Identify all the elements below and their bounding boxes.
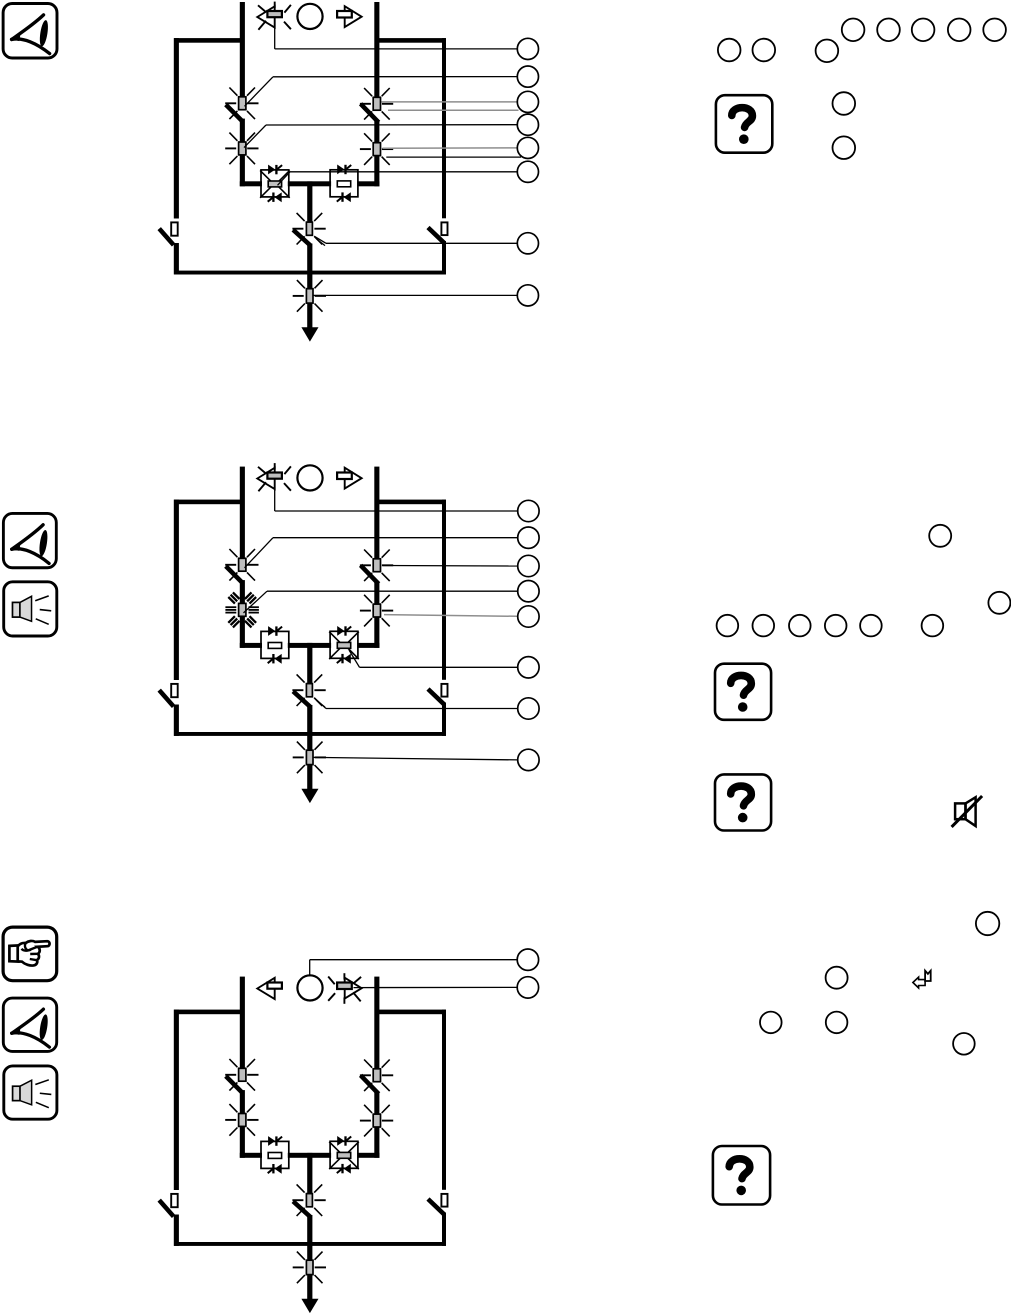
callout 8 diagram1 [517,285,538,306]
wire diagram3 output below breaker [307,1215,312,1261]
wire diagram2 bypass left vertical [174,500,179,680]
icon buzzer diagram3 [4,1066,57,1119]
LED Q4-right rays diagram1 [360,133,393,165]
LED Q1 left diagram2 [239,558,246,571]
retransfer arrow icon [913,977,925,988]
callout 5 diagram2 [518,606,539,627]
wire diagram1 left bus segment below Q1 [240,119,245,187]
wire diagram1 left input bus [240,2,245,97]
wire diagram3 bypass left vertical [174,1010,179,1190]
LED Q1-left rays diagram1 [225,88,258,120]
wire diagram2 bus into right SCR [357,643,379,648]
wire diagram3 bus into right SCR [357,1153,379,1158]
wire diagram2 bus into left SCR [240,643,262,648]
legend circle 2h [922,615,944,637]
bypass breaker left blade diagram2 [159,690,173,706]
bypass breaker right LED diagram3 [441,1194,447,1207]
output breaker LED rays diagram3 [292,1184,325,1216]
breaker Q2 right blade diagram2 [361,565,379,584]
legend circle 3e [953,1033,975,1055]
indicator arrow right-transfer diagram1 [345,6,362,27]
LED Q2-right rays diagram1 [360,88,393,120]
bypass breaker right LED diagram1 [441,222,447,235]
LED Q1 left diagram1 [239,97,246,110]
wire diagram3 bottom bus [174,1242,446,1246]
LED Q3-left fast rays diagram2 [225,592,259,627]
legend circle 2d [753,615,775,637]
output LED diagram3 [306,1260,313,1274]
wire diagram2 bypass top-left [174,500,242,505]
output breaker LED diagram1 [306,222,312,235]
output breaker LED diagram3 [306,1194,312,1207]
legend circle 1j [833,136,856,159]
indicator arrow right-transfer diagram2 [345,468,362,489]
output breaker blade diagram1 [293,230,311,246]
LED Q4-right rays diagram2 [360,595,393,627]
legend circle 1h [983,19,1006,42]
callout 7 diagram1 [517,233,538,254]
lamp diagram1 [297,4,322,29]
wire diagram2 right bus segment below Q2 [374,582,379,648]
wire diagram2 output riser [307,643,312,684]
lamp diagram3 [297,975,322,1000]
indicator arrow left-transfer diagram1 [257,6,274,27]
legend circle 1g [948,19,971,42]
wire diagram1 bypass top-left [174,38,242,43]
leader output LED to callout 8 [314,294,518,296]
wire diagram1 bypass left vertical [174,38,179,218]
muted buzzer icon [955,803,965,819]
wire diagram3 output riser [307,1153,312,1194]
wire diagram3 bypass right lower segment [442,1213,446,1246]
leader Q2 to callout 3 [382,101,518,103]
wire diagram1 bus into right SCR [357,181,379,186]
wire diagram3 bypass top-right [377,1010,446,1015]
wire diagram1 bus between SCR blocks [288,181,331,186]
leader from transfer LED to callout 1 [274,20,276,49]
callout 8 diagram2 [518,749,539,770]
callout 1 diagram3 [517,949,538,970]
wire diagram1 output below breaker [307,244,312,290]
wire diagram2 right input bus [374,467,379,559]
legend circle 2g [860,615,882,637]
wire diagram1 right input bus [374,2,379,98]
help box diagram3 [713,1146,770,1205]
wire diagram1 bottom bus [174,271,446,275]
output breaker LED rays diagram2 [292,674,325,706]
output LED diagram2 [306,750,313,764]
LED Q4 right diagram3 [373,1114,380,1127]
leader Q4 to callout 5 [382,147,517,149]
leader Q3 to callout 4 [244,125,266,148]
leader transfer LED to callout 1 d2 [274,482,276,511]
legend circle 1e [877,19,900,42]
wire diagram2 output below breaker [307,705,312,751]
LED Q1 left diagram3 [239,1068,246,1081]
breaker Q2 right blade diagram3 [361,1075,379,1094]
leader SSL to callout 6 [278,172,291,186]
output arrow diagram3 [307,1274,312,1299]
wire diagram3 bypass right vertical [442,1010,446,1190]
legend circle 2e [789,615,811,637]
leader lamp to callout 1 d3 [309,960,311,977]
static switch SSL diagram1 [261,170,289,197]
static switch SSR diagram2 [330,631,358,658]
icon observe diagram1 [3,4,57,58]
indicator arrow right-transfer diagram3 [345,978,362,999]
output arrow diagram1 [307,303,312,328]
icon buzzer diagram2 [4,582,57,636]
legend circle 3a [976,912,999,935]
callout 4 diagram1 [517,114,538,135]
leader transfer LED to callout 2 d3 [354,986,518,988]
wire diagram1 right bus segment below Q2 [374,120,379,186]
LED Q2 right diagram1 [373,97,380,110]
wire diagram3 right input bus [374,977,379,1070]
LED Q4 right diagram1 [373,143,380,156]
indicator arrow left-transfer diagram2 [257,468,274,489]
output LED rays diagram3 [293,1252,326,1284]
legend circle 2c [717,615,739,637]
legend circle 2f [825,615,847,637]
breaker Q1 left blade diagram2 [226,566,243,583]
leader output breaker to callout 7 d2 [314,698,326,709]
LED Q2-right rays diagram2 [360,550,393,582]
output LED rays diagram1 [293,280,326,312]
wire diagram2 left bus segment below Q1 [240,580,245,648]
leader SSR to callout 6 d2 [349,650,360,667]
legend circle 1f [912,19,935,42]
LED Q3 left diagram1 [239,142,246,155]
wire diagram2 bottom bus [174,732,446,736]
output breaker LED rays diagram1 [292,213,325,245]
wire diagram1 bus into left SCR [240,181,262,186]
callout 3 diagram1 [517,91,538,112]
LED Q2 right diagram3 [373,1069,380,1082]
callout 2 diagram3 [517,977,538,998]
bypass breaker left LED diagram1 [171,222,178,235]
bypass breaker left LED diagram3 [171,1194,178,1207]
breaker Q2 right blade diagram1 [361,104,379,123]
wire diagram2 bypass left lower segment [174,705,179,736]
output breaker blade diagram2 [293,691,311,707]
callout 4 diagram2 [518,581,539,602]
wire diagram1 bypass right lower segment [442,241,446,274]
leader Q2 to callout 3 d2 [383,565,518,568]
legend circle 2b [988,592,1010,614]
legend circle 1c [816,40,839,63]
legend circle 1i [833,92,856,115]
wire diagram2 bypass right lower segment [442,703,446,736]
leader Q1 to callout 2 [245,77,274,107]
icon observe diagram3 [3,998,56,1051]
LED Q4-right rays diagram3 [360,1105,393,1137]
callout 2 diagram2 [518,527,539,548]
legend circle 3b [826,967,848,989]
icon action diagram3 [3,927,57,981]
lamp diagram2 [297,465,322,490]
wire diagram2 bus between SCR blocks [288,643,331,648]
output LED diagram1 [306,289,313,303]
wire diagram3 bypass left lower segment [174,1215,179,1246]
bypass breaker right blade diagram1 [428,228,444,243]
LED Q4 right diagram2 [373,604,380,617]
callout 5 diagram1 [517,137,538,158]
bypass breaker left blade diagram1 [159,229,173,245]
static switch SSR diagram1 [330,170,358,197]
wire diagram3 bus between SCR blocks [288,1153,331,1158]
output breaker blade diagram3 [293,1201,311,1217]
static switch SSR diagram3 [330,1141,358,1168]
static switch SSL diagram3 [261,1141,289,1168]
wire diagram1 bypass top-right [377,38,446,43]
legend circle 1a [718,39,741,62]
static switch SSL diagram2 [261,631,289,658]
output arrow diagram2 [307,764,312,789]
wire diagram2 bypass right vertical [442,500,446,680]
leader Q3 to callout 4 d2 [244,591,268,613]
legend circle 1b [753,39,776,62]
output LED rays diagram2 [293,742,326,774]
bypass breaker left blade diagram3 [159,1200,173,1216]
wire diagram1 output riser [307,181,312,222]
help box diagram2 upper [715,664,771,720]
legend circle 3d [826,1012,848,1034]
help box diagram2 lower [715,774,771,830]
breaker Q1 left blade diagram3 [226,1076,243,1093]
wire diagram1 bypass right vertical [442,38,446,218]
bypass breaker right blade diagram3 [428,1199,444,1214]
callout 1 diagram1 [517,38,538,59]
wire diagram1 bypass left lower segment [174,243,179,274]
callout 3 diagram2 [518,555,539,576]
wire diagram3 right bus segment below Q2 [374,1092,379,1158]
callout 7 diagram2 [518,698,539,719]
callout 6 diagram2 [518,657,539,678]
output breaker LED diagram2 [306,684,312,697]
LED Q3 left diagram2 [239,603,246,616]
breaker Q1 left blade diagram1 [226,105,243,122]
callout 1 diagram2 [518,500,539,521]
LED Q3-left rays diagram1 [225,133,258,165]
wire diagram3 bypass top-left [174,1010,242,1015]
callout 6 diagram1 [517,161,538,182]
wire diagram3 left input bus [240,977,245,1069]
leader Q1 to callout 2 d2 [245,538,274,568]
LED Q2-right rays diagram3 [360,1060,393,1092]
leader output breaker to callout 7 [314,236,326,243]
bypass breaker right blade diagram2 [428,689,444,704]
wire diagram2 bypass top-right [377,500,446,505]
legend circle 2a [929,525,951,547]
icon observe diagram2 [3,513,56,567]
leader output LED to callout 8 d2 [314,757,518,760]
LED Q2 right diagram2 [373,559,380,572]
leader Q4 to callout 5 d2 [384,615,518,617]
help box diagram1 [716,95,772,153]
wire diagram3 bus into left SCR [240,1153,262,1158]
bypass breaker right LED diagram2 [441,684,447,697]
LED Q1-left rays diagram2 [225,549,258,581]
bypass breaker left LED diagram2 [171,684,178,697]
indicator arrow left-transfer diagram3 [257,978,274,999]
wire diagram3 left bus segment below Q1 [240,1090,245,1158]
legend circle 1d [842,19,865,42]
LED Q3-left rays diagram3 [225,1104,258,1136]
LED Q3 left diagram3 [239,1114,246,1127]
LED Q1-left rays diagram3 [225,1059,258,1091]
callout 2 diagram1 [517,66,538,87]
legend circle 3c [760,1012,782,1034]
wire diagram2 left input bus [240,467,245,559]
